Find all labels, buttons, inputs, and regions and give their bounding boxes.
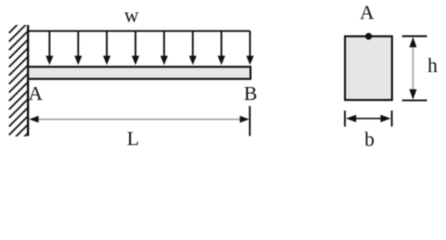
white mask above/below hatch band bbox=[0, 0, 30, 25]
svg-text:A: A bbox=[28, 83, 43, 105]
load arrow 6 bbox=[189, 31, 197, 65]
dimension L left arrowhead bbox=[29, 116, 38, 123]
svg-text:A: A bbox=[360, 2, 375, 24]
cross-section rectangle bbox=[345, 36, 392, 100]
dimension b shaft bbox=[350, 118, 387, 120]
load arrow 4 bbox=[132, 31, 140, 65]
load arrow 8 bbox=[246, 31, 254, 65]
svg-text:b: b bbox=[365, 129, 375, 151]
distributed load top line bbox=[28, 30, 250, 32]
dimension h top tick bbox=[402, 35, 427, 37]
dimension h shaft bbox=[412, 42, 414, 95]
dimension b right arrowhead bbox=[381, 115, 391, 122]
dimension L right arrowhead bbox=[240, 116, 249, 123]
dimension L right tick bbox=[249, 106, 251, 136]
dimension b right tick bbox=[391, 111, 393, 127]
dimension h top arrowhead bbox=[409, 37, 416, 47]
svg-text:w: w bbox=[124, 5, 139, 27]
load arrow 1 bbox=[46, 31, 54, 65]
fixed wall line bbox=[27, 25, 29, 136]
dimension b left tick bbox=[344, 111, 346, 127]
wall hatching bbox=[9, 15, 28, 140]
svg-text:L: L bbox=[127, 128, 139, 150]
load arrow 5 bbox=[160, 31, 168, 65]
dimension line L shaft bbox=[36, 118, 242, 120]
load arrow 3 bbox=[103, 31, 111, 65]
dimension h bottom tick bbox=[402, 99, 427, 101]
dimension h bottom arrowhead bbox=[409, 89, 416, 99]
svg-text:B: B bbox=[244, 83, 257, 105]
point A dot bbox=[365, 33, 372, 40]
beam bbox=[28, 67, 251, 79]
svg-text:h: h bbox=[428, 55, 438, 77]
dimension b left arrowhead bbox=[346, 115, 356, 122]
load arrow 7 bbox=[218, 31, 226, 65]
load arrow 2 bbox=[74, 31, 82, 65]
